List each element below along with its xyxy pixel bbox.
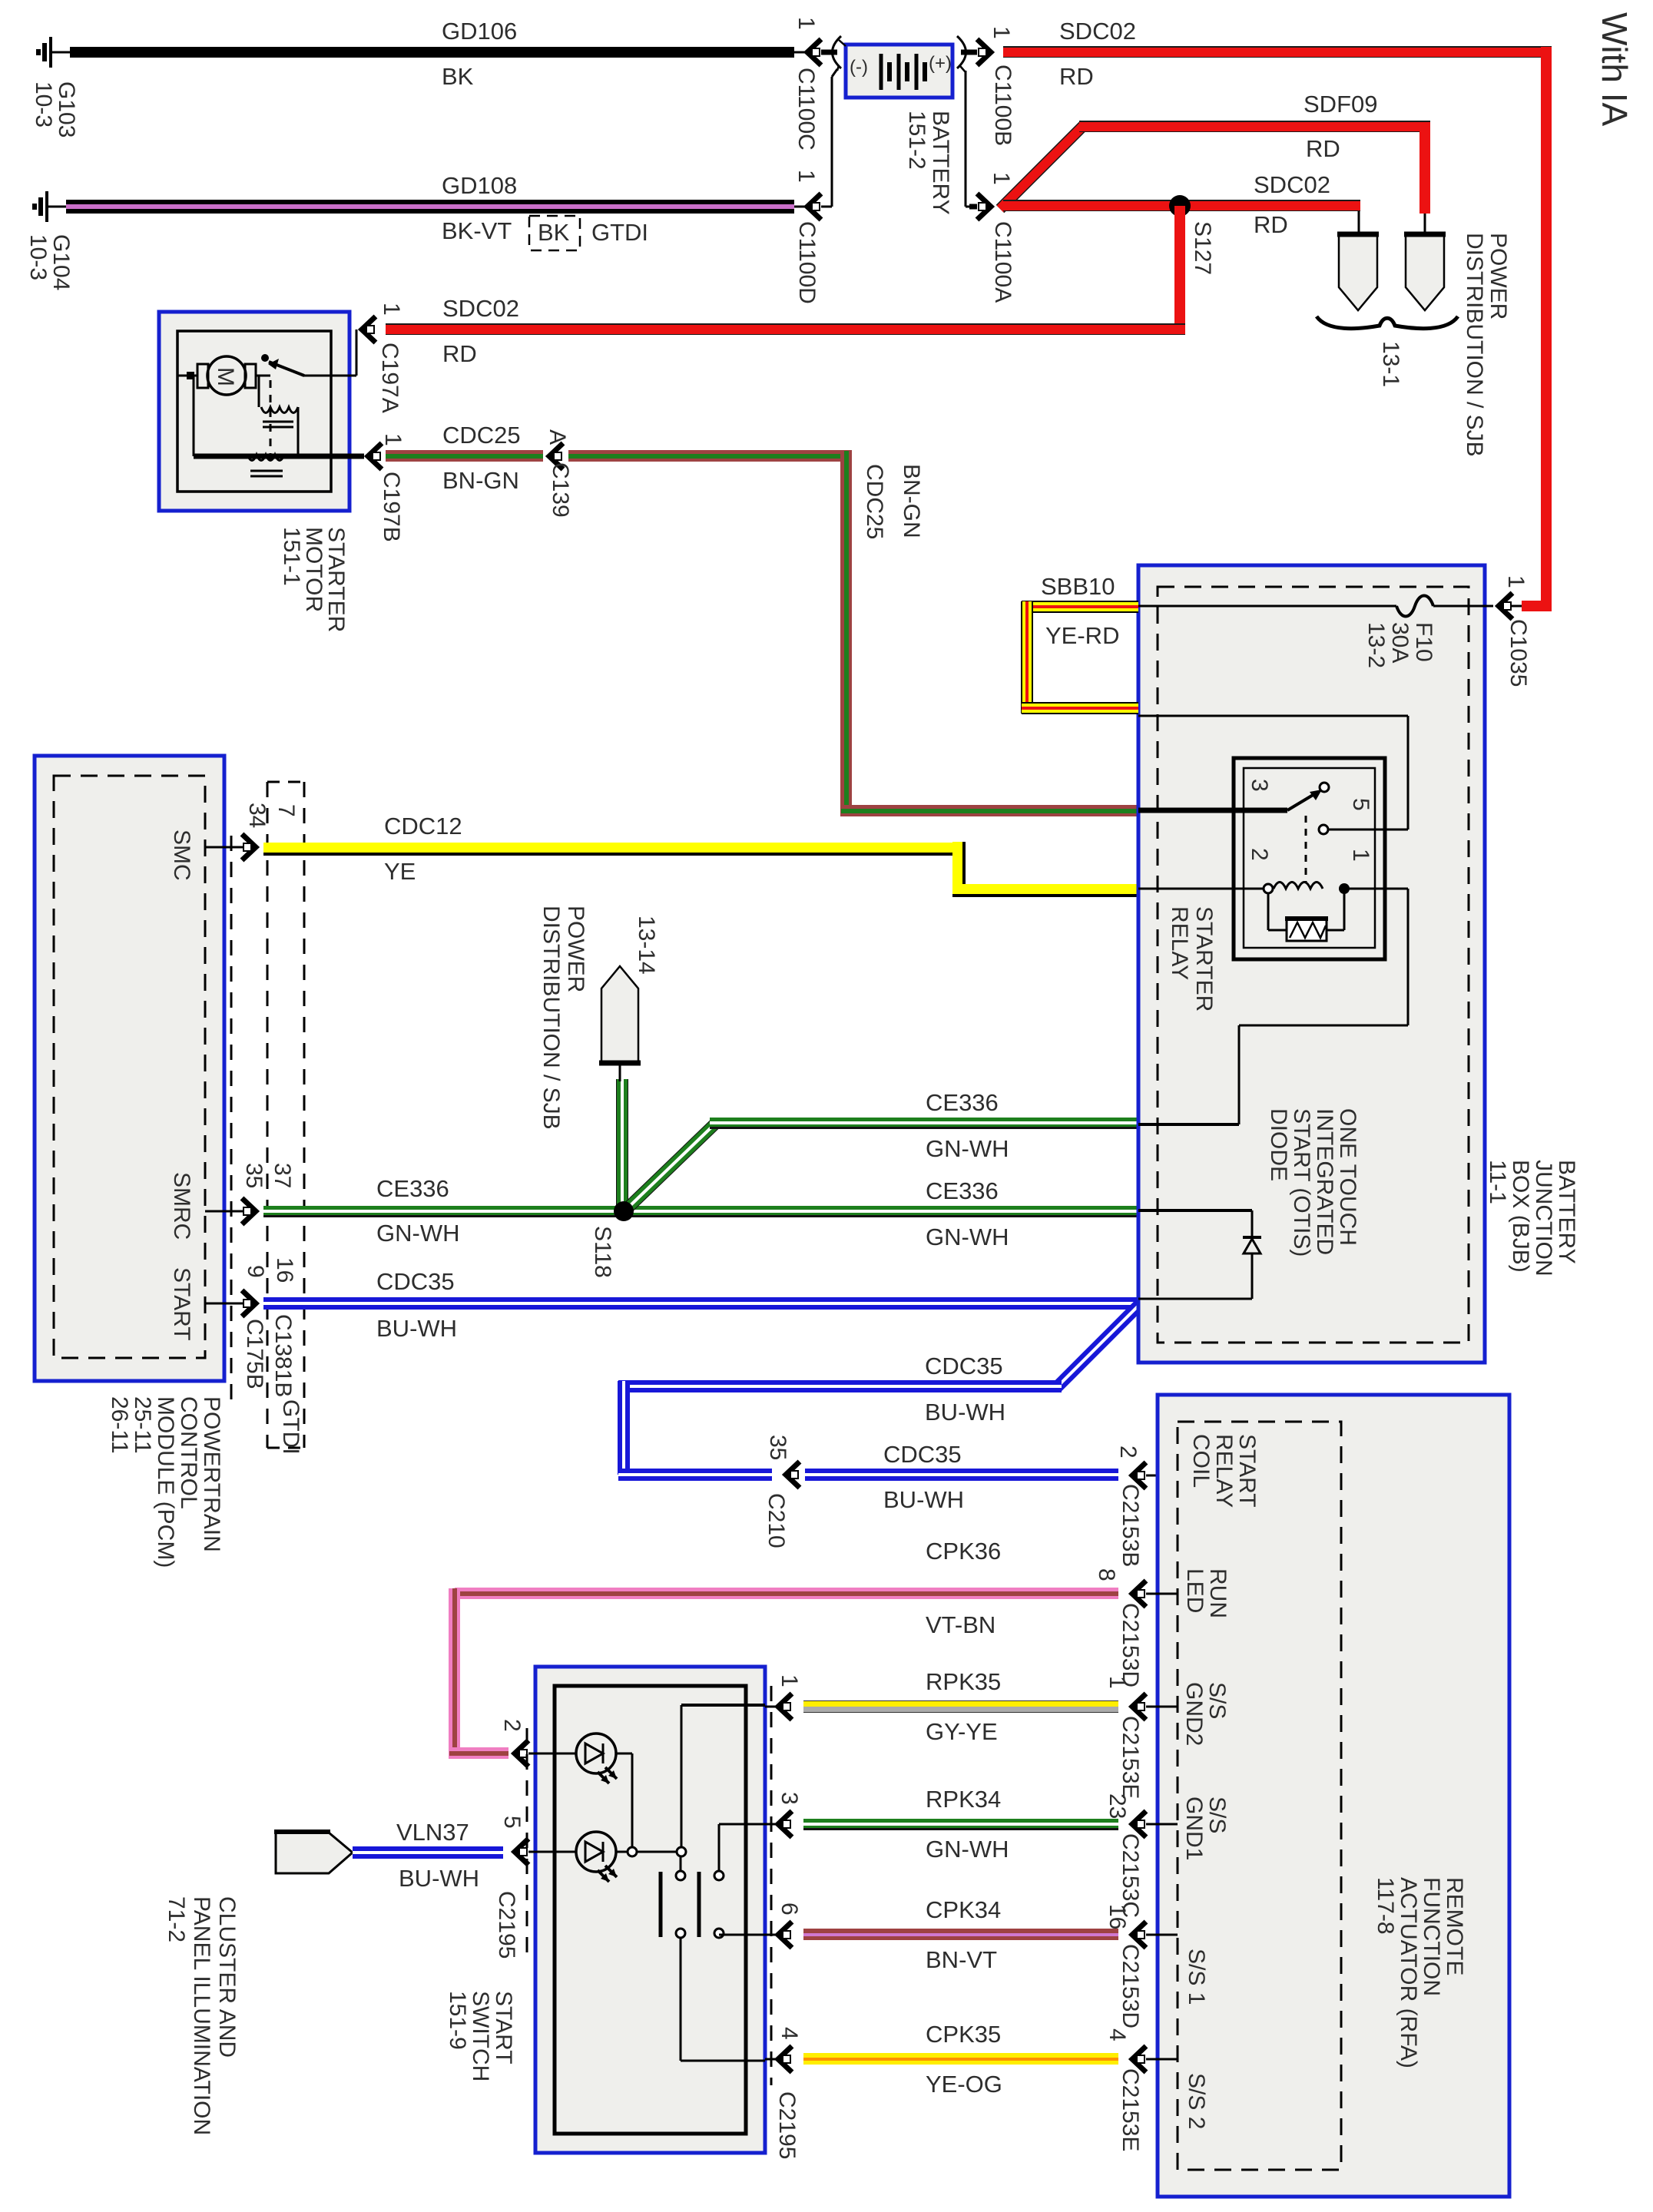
svg-text:FUNCTION: FUNCTION	[1419, 1877, 1444, 1996]
connector arrow SMC pin	[242, 834, 256, 860]
SMC pin stub	[205, 846, 244, 849]
fuse F (SJB right) (SJB)	[1404, 234, 1446, 310]
svg-text:151-9: 151-9	[445, 1991, 470, 2050]
svg-text:POWER: POWER	[563, 906, 588, 992]
pin4 stub	[765, 2058, 776, 2061]
relay actuator dashed line	[1305, 816, 1307, 882]
svg-text:JUNCTION: JUNCTION	[1531, 1160, 1556, 1277]
label STARTER RELAY (rotated)	[1167, 906, 1217, 1012]
svg-text:SDF09: SDF09	[1304, 91, 1377, 118]
svg-text:C1035: C1035	[1506, 619, 1531, 687]
svg-text:GTDI: GTDI	[278, 1399, 303, 1455]
svg-text:YE-RD: YE-RD	[1045, 622, 1119, 649]
wire CPK36 VT-BN drop	[449, 1588, 460, 1759]
svg-text:REMOTE: REMOTE	[1442, 1877, 1467, 1975]
svg-text:S/S 1: S/S 1	[1184, 1949, 1209, 2005]
svg-text:START: START	[169, 1267, 194, 1341]
svg-text:S/S: S/S	[1204, 1682, 1230, 1719]
wire CDC35 BU-WH drop	[618, 1381, 630, 1475]
svg-text:BK: BK	[538, 219, 570, 246]
svg-text:C2153E: C2153E	[1118, 1716, 1143, 1799]
svg-text:C197B: C197B	[379, 472, 404, 542]
BJB inner dashed box	[1158, 587, 1469, 1343]
label pin 1 C1035 (rotated)	[1503, 575, 1529, 588]
svg-text:3: 3	[1247, 779, 1272, 792]
svg-text:BU-WH: BU-WH	[883, 1486, 964, 1513]
label REMOTE FUNCTION ACTUATOR (RFA) 117-8 (rotated)	[1373, 1877, 1467, 2068]
svg-text:CPK35: CPK35	[926, 2021, 1001, 2048]
starter motor inner box	[177, 331, 331, 492]
svg-text:BU-WH: BU-WH	[399, 1865, 479, 1892]
svg-text:START (OTIS): START (OTIS)	[1289, 1108, 1314, 1257]
label C197A (rotated)	[377, 343, 402, 413]
label C2153B (rotated)	[1118, 1484, 1143, 1567]
svg-text:CE336: CE336	[376, 1175, 449, 1202]
svg-text:(+): (+)	[929, 53, 952, 74]
svg-text:117-8: 117-8	[1373, 1877, 1398, 1935]
svg-text:BU-WH: BU-WH	[376, 1315, 457, 1342]
fuse F10 30A	[1396, 596, 1433, 617]
svg-text:71-2: 71-2	[164, 1896, 189, 1942]
svg-text:RPK34: RPK34	[926, 1786, 1001, 1813]
label 13-1 (rotated)	[1378, 341, 1403, 387]
svg-text:YE-OG: YE-OG	[926, 2071, 1002, 2098]
connector arrow C1100D	[807, 194, 821, 220]
label relay pin 1 (rotated)	[1348, 849, 1373, 862]
wire GD108 BK-VT	[66, 200, 794, 214]
svg-text:C2153D: C2153D	[1118, 1944, 1143, 2028]
wire SBB10 YE-RD top	[1022, 601, 1138, 613]
connector arrow switch pin 2	[515, 1740, 528, 1767]
wire CDC12 YE (from PCM SMC)	[263, 843, 963, 856]
svg-text:CDC25: CDC25	[442, 422, 521, 449]
wire CDC35 BU-WH (return run)	[618, 1380, 1062, 1392]
label START RELAY COIL (rotated)	[1188, 1434, 1260, 1508]
label pin 1 C197B (rotated)	[380, 433, 406, 446]
relay movable contact arm	[1287, 783, 1329, 810]
label pin 1 C1100B (rotated)	[989, 26, 1014, 39]
svg-text:C1100D: C1100D	[794, 221, 820, 304]
label pin 5 (switch) (rotated)	[499, 1816, 525, 1829]
svg-text:1: 1	[379, 303, 404, 316]
RFA pin 23 stub	[1146, 1823, 1178, 1826]
label C2195 (left) (rotated)	[494, 1891, 519, 1959]
label S/S 1 (rotated)	[1184, 1949, 1209, 2005]
svg-text:BU-WH: BU-WH	[925, 1399, 1005, 1426]
svg-text:4: 4	[777, 2027, 802, 2040]
svg-text:1: 1	[1503, 575, 1529, 588]
svg-text:DISTRIBUTION / SJB: DISTRIBUTION / SJB	[538, 906, 564, 1130]
svg-text:151-2: 151-2	[904, 111, 929, 170]
svg-text:RD: RD	[1059, 63, 1094, 90]
svg-text:SMC: SMC	[169, 829, 194, 881]
label pin 1 C1100D (rotated)	[793, 170, 819, 183]
svg-text:10-3: 10-3	[31, 81, 56, 127]
wire SDF09 RD diagonal	[1000, 124, 1085, 209]
RFA inner dashed box	[1178, 1422, 1341, 2170]
label BATTERY JUNCTION BOX (BJB) 11-1 (rotated)	[1485, 1160, 1579, 1277]
svg-text:YE: YE	[384, 858, 416, 885]
svg-text:RD: RD	[1254, 211, 1288, 238]
svg-text:3: 3	[777, 1792, 802, 1805]
svg-text:S/S 2: S/S 2	[1184, 2073, 1209, 2129]
starter feed riser	[356, 329, 358, 376]
svg-text:151-1: 151-1	[279, 527, 304, 586]
svg-text:2: 2	[1115, 1445, 1141, 1459]
svg-text:23: 23	[1105, 1793, 1130, 1819]
label pin 9 (rotated)	[243, 1265, 268, 1278]
svg-text:30A: 30A	[1387, 622, 1413, 663]
svg-text:GD108: GD108	[442, 172, 517, 199]
label C1381B (rotated)	[270, 1314, 296, 1397]
wire CDC35 BU-WH diagonal from BJB	[1057, 1304, 1140, 1387]
svg-text:GN-WH: GN-WH	[926, 1135, 1009, 1162]
BJB feed to fuse F10	[1138, 605, 1396, 608]
cluster illumination arrow	[276, 1833, 353, 1873]
wire SBB10 YE-RD left	[1021, 601, 1033, 714]
svg-text:RD: RD	[442, 340, 477, 367]
wire CDC35 BU-WH (C210 to RFA)	[805, 1469, 1118, 1481]
wire SDF09 RD drop to fuse	[1419, 127, 1430, 214]
wire CPK34 BN-VT	[803, 1929, 1118, 1940]
svg-text:START: START	[1234, 1434, 1260, 1508]
svg-text:BATTERY: BATTERY	[928, 111, 953, 215]
svg-text:BK: BK	[442, 63, 474, 90]
svg-text:8: 8	[1094, 1568, 1119, 1581]
wire SDC02 RD into C1035	[1522, 601, 1552, 611]
svg-text:M: M	[213, 367, 238, 386]
svg-text:RELAY: RELAY	[1211, 1434, 1237, 1508]
label pin 34 (rotated)	[244, 803, 270, 828]
motor feed line	[177, 375, 197, 377]
relay contact 5	[1319, 716, 1408, 834]
svg-text:RUN: RUN	[1205, 1568, 1231, 1618]
battery positive drop wire	[960, 66, 977, 207]
wire to C1100D	[794, 206, 807, 208]
solenoid hold coil	[247, 455, 284, 476]
label relay pin 5 (rotated)	[1348, 798, 1373, 811]
svg-text:13-2: 13-2	[1363, 622, 1389, 668]
wire CDC35 BU-WH (to C210)	[618, 1469, 772, 1481]
wire SDC02 RD (to starter motor)	[386, 323, 1185, 335]
label relay pin 2 (rotated)	[1247, 848, 1272, 861]
label F10 30A 13-2 (rotated)	[1363, 622, 1436, 668]
motor to solenoid switch	[256, 375, 270, 377]
svg-text:G103: G103	[54, 81, 79, 137]
start switch box	[535, 1667, 765, 2153]
label C2153E (rotated)	[1118, 1716, 1143, 1799]
svg-text:S/S: S/S	[1204, 1796, 1230, 1833]
svg-text:1: 1	[1105, 1676, 1130, 1689]
svg-text:CDC25: CDC25	[862, 464, 887, 539]
fuse F (SJB 13-14) (SJB)	[599, 966, 641, 1063]
svg-text:1: 1	[777, 1674, 802, 1687]
wire CPK36 VT-BN (to switch pin2)	[449, 1747, 508, 1759]
SMRC pin stub	[205, 1210, 244, 1213]
wire CDC12 YE step	[952, 842, 966, 889]
wire CE336 GN-WH (S118 to BJB lower)	[628, 1206, 1138, 1217]
fuse2 feed	[1424, 214, 1426, 233]
svg-text:SMRC: SMRC	[169, 1172, 194, 1240]
label RUN LED (rotated)	[1182, 1568, 1231, 1618]
solenoid switch contact	[261, 354, 304, 376]
svg-text:C139: C139	[548, 462, 573, 518]
pin2 stub	[528, 1753, 576, 1755]
label C2153D (rotated)	[1118, 1944, 1143, 2028]
svg-text:35: 35	[765, 1435, 790, 1460]
svg-text:S118: S118	[590, 1226, 615, 1278]
fuse F10 to C1035	[1433, 605, 1493, 608]
wire to C1100C	[794, 51, 807, 54]
battery C1100C arc-link lines	[837, 40, 846, 71]
splice label box BK (GTDI)	[529, 216, 580, 250]
label POWERTRAIN CONTROL MODULE (PCM) 25-11 26-11 (rotated)	[107, 1396, 224, 1568]
svg-text:SBB10: SBB10	[1041, 573, 1115, 600]
svg-text:(-): (-)	[850, 57, 868, 78]
connector arrow C139	[549, 443, 563, 469]
wire CE336 GN-WH (upper into BJB)	[710, 1118, 1138, 1129]
wire CE336 GN-WH (from PCM SMRC)	[263, 1206, 619, 1217]
label SMC (rotated)	[169, 829, 194, 881]
svg-text:1: 1	[380, 433, 406, 446]
wire SDF09 RD	[1079, 121, 1430, 132]
motor M	[197, 356, 256, 395]
relay coil return path	[1138, 889, 1408, 1124]
wire SDC02 RD (battery to SJB)	[1003, 46, 1552, 58]
wire CDC12 YE (to BJB)	[952, 884, 1138, 897]
label S118 (rotated)	[590, 1226, 615, 1278]
pin5 stub	[528, 1851, 576, 1853]
svg-text:G104: G104	[48, 234, 74, 290]
svg-text:COIL: COIL	[1188, 1434, 1214, 1488]
connector arrow C1035	[1499, 593, 1512, 619]
splice S127	[1169, 195, 1191, 217]
label BN-GN (riser) (rotated)	[899, 464, 924, 538]
wire SBB10 YE-RD bottom	[1022, 702, 1138, 714]
svg-text:SDC02: SDC02	[1254, 171, 1330, 198]
solenoid pull-in coil	[259, 376, 298, 455]
link C1100D to battery	[821, 206, 832, 208]
label CLUSTER AND PANEL ILLUMINATION 71-2 (rotated)	[164, 1896, 240, 2135]
svg-text:PANEL ILLUMINATION: PANEL ILLUMINATION	[189, 1896, 214, 2135]
svg-text:26-11: 26-11	[107, 1396, 132, 1454]
connector arrow C2153D (16)	[1132, 1922, 1146, 1948]
label pin 6 (switch) (rotated)	[777, 1902, 802, 1916]
connector arrow C1100B	[977, 39, 991, 65]
SJB brace	[1317, 316, 1458, 329]
svg-text:16: 16	[272, 1257, 297, 1283]
svg-text:4: 4	[1105, 2028, 1130, 2041]
ground G104	[35, 191, 66, 222]
label C1035 (rotated)	[1506, 619, 1531, 687]
OTIS circuit wires	[1138, 1210, 1252, 1299]
wire CDC25 BN-GN riser	[840, 451, 852, 816]
label pin 8 (rotated)	[1094, 1568, 1119, 1581]
label G103 10-3 (rotated)	[31, 81, 79, 137]
RFA pin 16 stub	[1146, 1934, 1178, 1936]
relay resistor	[1268, 893, 1344, 941]
svg-text:GN-WH: GN-WH	[376, 1220, 459, 1247]
svg-text:RELAY: RELAY	[1167, 906, 1192, 980]
label pin 1 C197A (rotated)	[379, 303, 404, 316]
label START (rotated)	[169, 1267, 194, 1341]
connector C1100C female arc	[821, 36, 841, 68]
label POWER DISTRIBUTION / SJB (S118) (rotated)	[538, 906, 588, 1130]
svg-text:CPK34: CPK34	[926, 1896, 1001, 1923]
indicator lamp lamp 1 (run)	[576, 1734, 617, 1783]
label pin 16 (rotated)	[1105, 1904, 1130, 1929]
svg-text:CLUSTER AND: CLUSTER AND	[214, 1896, 240, 2058]
svg-text:C1381B: C1381B	[270, 1314, 296, 1397]
label START SWITCH 151-9 (rotated)	[445, 1991, 516, 2081]
svg-text:MODULE (PCM): MODULE (PCM)	[153, 1396, 178, 1568]
svg-text:C2195: C2195	[494, 1891, 519, 1959]
label C2153C (rotated)	[1118, 1833, 1143, 1918]
svg-text:GN-WH: GN-WH	[926, 1224, 1009, 1250]
svg-text:RPK35: RPK35	[926, 1668, 1001, 1695]
SJB fuse lead	[619, 1065, 621, 1081]
powertrain control module (PCM) box	[35, 756, 224, 1381]
svg-text:GTDI: GTDI	[591, 219, 648, 246]
connector arrow C2153E (1)	[1132, 1694, 1146, 1720]
connector arrow switch pin 1	[778, 1694, 792, 1720]
label pin 35 (rotated)	[241, 1163, 267, 1188]
label pin 1 (switch) (rotated)	[777, 1674, 802, 1687]
wire RPK35 GY-YE	[803, 1700, 1118, 1713]
label C1100D (rotated)	[794, 221, 820, 304]
svg-text:1: 1	[793, 17, 819, 30]
connector arrow C210	[786, 1462, 800, 1488]
svg-text:POWERTRAIN: POWERTRAIN	[199, 1396, 224, 1552]
relay coil	[1138, 882, 1408, 895]
battery neg diag	[832, 69, 837, 77]
wire SDC02 RD drop from S127	[1174, 206, 1185, 335]
svg-text:13-14: 13-14	[634, 916, 659, 975]
solenoid ground return	[194, 376, 364, 456]
svg-text:CDC35: CDC35	[883, 1441, 962, 1468]
label CDC25 (riser) (rotated)	[862, 464, 887, 539]
label GTDI (C1381B) (rotated)	[278, 1399, 303, 1455]
starter motor box	[159, 312, 349, 511]
label S/S 2 (rotated)	[1184, 2073, 1209, 2129]
connector arrow switch pin 6	[778, 1922, 792, 1948]
remote function actuator (RFA) box	[1158, 1395, 1509, 2197]
connector arrow C197A	[362, 316, 376, 343]
svg-text:6: 6	[777, 1902, 802, 1916]
starter relay outer box	[1234, 758, 1385, 959]
label C210 (rotated)	[764, 1493, 789, 1548]
svg-text:5: 5	[499, 1816, 525, 1829]
svg-text:5: 5	[1348, 798, 1373, 811]
label C139 (rotated)	[548, 462, 573, 518]
svg-text:GN-WH: GN-WH	[926, 1836, 1009, 1863]
svg-text:1: 1	[989, 26, 1014, 39]
connector arrow switch pin 4	[778, 2046, 792, 2072]
svg-text:CE336: CE336	[926, 1089, 999, 1116]
label With IA (rotated)	[1595, 12, 1635, 127]
svg-text:GD106: GD106	[442, 18, 517, 45]
svg-text:F10: F10	[1411, 622, 1436, 662]
connector arrow C2153C (23)	[1132, 1811, 1146, 1837]
label pin 1 C1100C (rotated)	[793, 17, 819, 30]
switch pole A	[661, 1856, 765, 2061]
svg-text:13-1: 13-1	[1378, 341, 1403, 387]
svg-text:1: 1	[989, 172, 1014, 185]
wire CDC25 BN-GN (to BJB riser)	[568, 450, 852, 462]
start switch inner box	[555, 1686, 746, 2134]
svg-text:S127: S127	[1190, 221, 1215, 275]
svg-text:SDC02: SDC02	[1059, 18, 1136, 45]
svg-text:11-1: 11-1	[1485, 1160, 1510, 1204]
svg-text:VLN37: VLN37	[396, 1819, 469, 1846]
label C1100B (rotated)	[990, 65, 1015, 146]
wire CDC25 BN-GN (into BJB)	[841, 805, 1138, 816]
pin6 stub	[765, 1934, 776, 1936]
RFA coil pin stub	[1146, 1475, 1178, 1477]
svg-text:ACTUATOR (RFA): ACTUATOR (RFA)	[1396, 1877, 1421, 2068]
svg-text:35: 35	[241, 1163, 267, 1188]
battery negative drop wire	[831, 77, 833, 207]
svg-text:BATTERY: BATTERY	[1554, 1160, 1579, 1264]
svg-text:RD: RD	[1306, 135, 1340, 162]
svg-text:ONE TOUCH: ONE TOUCH	[1335, 1108, 1360, 1246]
label pin 1 (rotated)	[1105, 1676, 1130, 1689]
wire RPK34 GN-WH	[803, 1819, 1118, 1830]
solenoid dashed actuator line	[270, 380, 272, 461]
svg-text:2: 2	[1247, 848, 1272, 861]
svg-text:1: 1	[1348, 849, 1373, 862]
svg-text:C197A: C197A	[377, 343, 402, 413]
svg-text:SWITCH: SWITCH	[468, 1991, 493, 2081]
label G104 10-3 (rotated)	[25, 234, 74, 290]
svg-text:37: 37	[270, 1163, 295, 1188]
wire CE336 GN-WH riser to SJB fuse	[616, 1079, 628, 1206]
svg-text:BN-VT: BN-VT	[926, 1946, 997, 1973]
svg-text:GND2: GND2	[1181, 1682, 1207, 1746]
label A (C139) (rotated)	[545, 429, 570, 445]
label ONE TOUCH INTEGRATED START (OTIS) DIODE (rotated)	[1266, 1108, 1360, 1257]
svg-text:C1100B: C1100B	[990, 65, 1015, 146]
junction square	[187, 372, 194, 379]
START pin stub	[205, 1303, 244, 1305]
svg-text:CE336: CE336	[926, 1177, 999, 1204]
svg-text:POWER: POWER	[1486, 233, 1511, 320]
connector arrow C2153E (4)	[1132, 2046, 1146, 2072]
label SMRC (rotated)	[169, 1172, 194, 1240]
svg-text:STARTER: STARTER	[1191, 906, 1217, 1012]
label STARTER MOTOR 151-1 (rotated)	[279, 527, 349, 632]
svg-text:DIODE: DIODE	[1266, 1108, 1291, 1181]
switch internal wiring	[616, 1705, 765, 1856]
label pin 35 C210 (rotated)	[765, 1435, 790, 1460]
splice S118	[614, 1201, 634, 1221]
label pin 23 (rotated)	[1105, 1793, 1130, 1819]
connector arrow C1100A	[977, 194, 991, 220]
label POWER DISTRIBUTION / SJB (rotated)	[1462, 233, 1511, 457]
label pin 16 (rotated)	[272, 1257, 297, 1283]
label pin 4 (switch) (rotated)	[777, 2027, 802, 2040]
svg-text:C1100A: C1100A	[990, 221, 1015, 303]
svg-text:CPK36: CPK36	[926, 1538, 1001, 1565]
wire GD106 BK	[70, 47, 794, 58]
svg-text:10-3: 10-3	[25, 234, 51, 280]
SBB10 inner run	[1138, 715, 1408, 717]
label pin 4 (rotated)	[1105, 2028, 1130, 2041]
connector arrow SMRC pin	[242, 1198, 256, 1224]
connector arrow switch pin 3	[778, 1811, 792, 1837]
connector C1100B female arc	[957, 36, 977, 68]
label C1100C (rotated)	[793, 68, 819, 151]
